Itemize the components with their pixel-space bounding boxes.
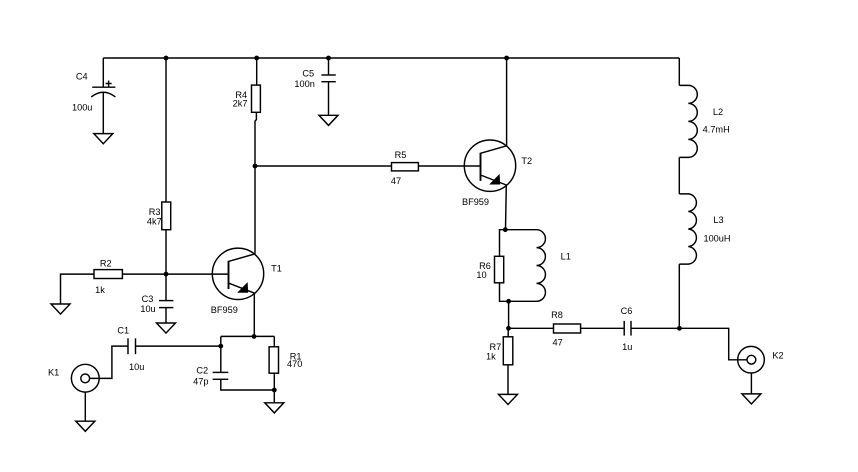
- svg-text:BF959: BF959: [462, 197, 489, 207]
- node T1 emitter / C2 R1: [252, 334, 257, 339]
- wire R2 right: [122, 273, 166, 275]
- wire R1 top: [273, 336, 275, 346]
- ground below K1: [76, 421, 95, 431]
- wire C2 top: [220, 336, 222, 372]
- resistor R4: [233, 85, 261, 112]
- wire R4 bottom with jog: [255, 112, 256, 166]
- wire T1 emitter: [253, 293, 255, 336]
- wire C5 top: [328, 58, 330, 75]
- ground below R1: [265, 403, 284, 413]
- node R7 / R8: [506, 326, 511, 331]
- wire C4 top: [102, 58, 104, 87]
- wire C3 top: [165, 274, 167, 301]
- svg-text:100n: 100n: [294, 79, 314, 89]
- ground below C4: [94, 134, 113, 144]
- svg-text:C4: C4: [76, 72, 88, 82]
- node R4 / R5 / T1 collector: [253, 164, 258, 169]
- wire C2/R1 top rail: [221, 335, 274, 337]
- svg-text:K2: K2: [772, 350, 783, 360]
- wire R5 left: [255, 165, 392, 167]
- wire C1 left to K1: [90, 346, 128, 378]
- svg-text:2k7: 2k7: [233, 98, 248, 108]
- wire to K2: [679, 328, 747, 360]
- resistor R3: [147, 202, 171, 230]
- wire R7 top: [507, 328, 509, 337]
- wire R3 bottom: [165, 230, 167, 274]
- inductor L1: [505, 230, 571, 302]
- inductor L2: [679, 85, 729, 157]
- capacitor C2: [193, 365, 228, 386]
- wire R7 bottom: [507, 365, 509, 395]
- node base T1: [164, 272, 169, 277]
- resistor R7: [486, 337, 513, 365]
- svg-text:L3: L3: [713, 215, 723, 225]
- svg-text:1k: 1k: [486, 351, 496, 361]
- svg-text:C1: C1: [117, 325, 129, 335]
- svg-text:C5: C5: [302, 69, 314, 79]
- resistor R8: [551, 310, 580, 347]
- svg-text:47: 47: [552, 337, 562, 347]
- node right rail / C6 / K2: [677, 326, 682, 331]
- svg-text:C2: C2: [196, 365, 208, 375]
- svg-text:L1: L1: [561, 252, 571, 262]
- svg-text:R2: R2: [100, 258, 112, 268]
- capacitor C1: [117, 325, 144, 372]
- wire T1 collector: [254, 166, 256, 254]
- capacitor C5: [294, 69, 335, 90]
- wire between L2 and L3: [678, 157, 680, 194]
- svg-text:T1: T1: [271, 263, 282, 273]
- ground below C3: [157, 323, 176, 333]
- resistor R2: [94, 258, 122, 295]
- svg-text:100uH: 100uH: [703, 233, 730, 243]
- svg-text:1u: 1u: [622, 342, 632, 352]
- wire R3 top: [165, 58, 167, 202]
- wire right rail top: [678, 58, 680, 85]
- wire K1 ground stem: [84, 392, 86, 421]
- svg-text:C6: C6: [621, 306, 633, 316]
- svg-text:1k: 1k: [95, 285, 105, 295]
- resistor R5: [391, 150, 419, 186]
- wire K2 ground stem: [750, 373, 752, 394]
- ground below K2: [742, 394, 761, 404]
- svg-text:BF959: BF959: [211, 305, 238, 315]
- ground below R2: [51, 304, 70, 314]
- svg-text:T2: T2: [521, 156, 532, 166]
- inductor L3: [679, 194, 730, 264]
- wire right rail bottom: [678, 264, 680, 328]
- node top rail / T2 collector: [504, 56, 509, 61]
- wire R1 ground stem: [273, 390, 275, 403]
- node T2 emitter / R6 / L1: [503, 227, 508, 232]
- svg-text:10u: 10u: [140, 304, 155, 314]
- capacitor C6: [621, 306, 633, 352]
- ground below C5: [319, 115, 338, 125]
- wire top supply rail: [103, 57, 679, 59]
- capacitor C3: [140, 294, 173, 314]
- resistor R1: [269, 347, 302, 373]
- node R6 / L1 bottom: [506, 299, 511, 304]
- transistor T1: [211, 248, 282, 315]
- resistor R6: [476, 256, 503, 283]
- node top rail / C5: [326, 56, 331, 61]
- svg-text:4k7: 4k7: [147, 216, 162, 226]
- svg-text:K1: K1: [48, 368, 59, 378]
- svg-text:470: 470: [287, 359, 302, 369]
- svg-text:R8: R8: [551, 310, 563, 320]
- svg-text:10: 10: [476, 270, 486, 280]
- node R1 / ground: [272, 388, 277, 393]
- wire C3 bottom: [165, 308, 167, 323]
- svg-text:C3: C3: [142, 294, 154, 304]
- wire R1 bottom: [273, 373, 275, 390]
- wire C4 bottom: [102, 92, 104, 134]
- wire R8 right: [581, 327, 625, 329]
- wire T2 emitter: [505, 185, 508, 230]
- transistor T2: [462, 140, 532, 207]
- capacitor C4: [72, 72, 115, 113]
- wire down to R7 node: [508, 301, 510, 328]
- wire R8 left: [509, 327, 554, 329]
- svg-text:4.7mH: 4.7mH: [703, 125, 730, 135]
- ground below R7: [499, 394, 518, 404]
- node C1 / C2: [218, 344, 223, 349]
- svg-text:10u: 10u: [129, 362, 144, 372]
- node top rail / R4: [254, 56, 259, 61]
- node top rail / R3: [164, 56, 169, 61]
- wire C2 bottom rail: [221, 379, 274, 390]
- svg-text:47: 47: [391, 176, 401, 186]
- wire T1 base: [166, 273, 229, 275]
- connector K2: [738, 346, 784, 373]
- connector K1: [48, 364, 99, 392]
- svg-text:47p: 47p: [193, 377, 208, 387]
- wire R6 top jog: [500, 230, 506, 257]
- svg-text:R5: R5: [395, 150, 407, 160]
- wire C6 right: [631, 327, 679, 329]
- wire R4 top: [256, 58, 258, 85]
- wire T2 collector: [506, 58, 508, 146]
- svg-text:100u: 100u: [72, 102, 92, 112]
- wire C5 bottom: [328, 82, 330, 116]
- wire R2 left: [61, 274, 95, 304]
- wire C1 right: [136, 345, 221, 347]
- svg-text:L2: L2: [713, 107, 723, 117]
- wire R5 right to T2 base: [418, 165, 480, 167]
- wire R6 bottom: [500, 283, 509, 302]
